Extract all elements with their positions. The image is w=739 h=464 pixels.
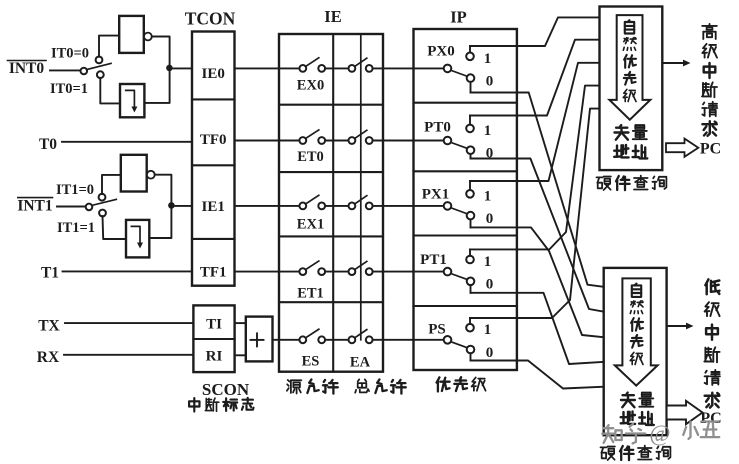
switch EX0 left contact <box>299 65 306 72</box>
switch ES arm <box>306 329 319 338</box>
label zhongduan biaozhi (interrupt flags) <box>189 398 253 412</box>
wire IT0=1 contact to edge detector <box>100 78 120 104</box>
svg-text:IT1=0: IT1=0 <box>56 182 94 198</box>
IP row divider 2 <box>414 170 517 172</box>
svg-text:PX1: PX1 <box>422 187 450 203</box>
label IT0=0 <box>51 46 89 62</box>
label SCON <box>202 380 250 399</box>
wire EA switch to IP row 3 <box>373 205 444 207</box>
switch ET1 arm <box>306 261 319 270</box>
label shiliang dizhi (vector address, high) <box>614 125 647 158</box>
switch ET1 right contact <box>318 268 325 275</box>
input label T1 <box>41 265 59 282</box>
falling edge symbol in U2 <box>126 90 138 112</box>
label IP <box>450 8 467 27</box>
wire U4 output to junction <box>149 209 171 239</box>
digit 1 label row 3 <box>484 188 492 204</box>
EA switch row 3 right contact <box>366 203 373 210</box>
wire PS contact-1 stub <box>469 318 471 324</box>
switch PT1 pole <box>444 268 452 276</box>
switch PS contact 1 <box>466 324 474 332</box>
wire PX0-1 to high encoder in1 <box>470 17 600 46</box>
label IE <box>324 7 341 26</box>
EA switch row 2 left contact <box>349 137 356 144</box>
IE row divider 3 <box>279 235 383 237</box>
plus sign in OR gate <box>251 333 264 346</box>
input label TX <box>38 318 60 335</box>
svg-text:EX1: EX1 <box>297 217 324 233</box>
input label RX <box>37 349 60 366</box>
svg-text:0: 0 <box>486 277 494 293</box>
digit 0 label row 2 <box>486 146 494 162</box>
IP row divider 1 <box>414 102 517 104</box>
flag bit RI <box>206 349 223 365</box>
wire PX1 contact-1 stub <box>469 181 471 190</box>
label ziran youxianji (natural priority, low) <box>630 284 643 365</box>
svg-text:TX: TX <box>38 318 60 335</box>
register SCON box <box>193 305 234 372</box>
wire TI to OR gate <box>235 322 246 324</box>
EA common control line <box>360 34 362 340</box>
switch PT0 contact 0 <box>467 146 475 154</box>
switch PT0 arm (set to 0) <box>451 142 467 148</box>
flag bit IE0 <box>202 66 225 82</box>
switch ET0 left contact <box>299 137 306 144</box>
EA switch row 5 left contact <box>349 336 356 343</box>
switch PT1 contact 1 <box>466 256 474 264</box>
wire EX0 to EA switch <box>325 67 348 69</box>
SCON divider TI/RI <box>193 338 234 340</box>
wire PT0-1 to high encoder in2 <box>470 40 600 116</box>
svg-text:@: @ <box>649 421 670 446</box>
EA switch row 1 arm <box>355 58 367 66</box>
switch PS pole <box>444 336 452 344</box>
IE row divider 4 <box>279 301 383 303</box>
label yingjian chaxun (hardware polling, high) <box>597 176 667 191</box>
label shiliang dizhi (vector address, low) <box>621 393 654 425</box>
switch IT1 contact IT1=0 <box>99 194 106 201</box>
label EX0 <box>297 78 324 94</box>
switch PX1 arm (set to 0) <box>451 208 467 214</box>
wire junction to TCON IE0 <box>170 67 192 69</box>
switch PX0 arm (set to 0) <box>451 70 467 76</box>
svg-text:1: 1 <box>484 322 492 338</box>
switch IT0 contact IT0=1 <box>97 71 104 78</box>
svg-text:1: 1 <box>484 188 492 204</box>
EA switch row 4 left contact <box>349 268 356 275</box>
svg-text:IP: IP <box>450 8 467 27</box>
switch EX0 right contact <box>318 65 325 72</box>
TCON divider IE0/TF0 <box>192 98 235 100</box>
label ES <box>302 354 320 370</box>
register IE box <box>279 34 383 372</box>
svg-text:1: 1 <box>484 51 492 67</box>
wire IT1=0 contact to level detector <box>102 175 121 194</box>
input label T0 <box>39 136 57 153</box>
switch ET0 arm <box>306 130 319 139</box>
natural priority arrow (high) <box>609 15 650 120</box>
EA switch row 5 arm <box>355 330 367 338</box>
wire PT1 contact-0 stub <box>470 285 472 293</box>
junction node (INT0 paths merge) <box>166 65 173 72</box>
svg-text:EX0: EX0 <box>297 78 324 94</box>
low priority encoder box <box>604 268 667 435</box>
svg-text:PX0: PX0 <box>427 44 455 60</box>
switch EX1 arm <box>306 195 319 204</box>
svg-text:PT0: PT0 <box>424 120 451 136</box>
wire PX0 contact-0 stub <box>470 82 472 93</box>
svg-text:EA: EA <box>350 355 371 371</box>
switch PX1 contact 0 <box>467 212 475 220</box>
svg-text:PT1: PT1 <box>420 252 447 268</box>
wire PT1-1 to high encoder in4 <box>470 86 600 250</box>
digit 0 label row 3 <box>486 211 494 227</box>
level detector box U3 (INT1) <box>121 155 147 192</box>
svg-text:0: 0 <box>486 73 494 89</box>
label IT0=1 <box>50 81 88 97</box>
wire PT0 contact-0 stub <box>470 154 472 159</box>
wire IT1=1 contact to edge detector <box>103 216 127 239</box>
inverter bubble on U1 output <box>144 33 152 41</box>
IP row divider 3 <box>414 234 517 236</box>
level detector box U1 (INT0) <box>119 16 144 53</box>
digit 0 label row 4 <box>486 277 494 293</box>
wire U1 output to junction <box>152 37 170 66</box>
switch EX1 left contact <box>299 203 306 210</box>
svg-text:ES: ES <box>302 354 320 370</box>
digit 1 label row 4 <box>484 254 492 270</box>
wire EX1 to EA switch <box>325 205 348 207</box>
wire TCON to ET0 switch <box>235 140 300 142</box>
switch PS arm (set to 0) <box>451 342 467 348</box>
svg-text:TI: TI <box>206 317 222 333</box>
low interrupt request output line <box>667 323 694 330</box>
wire RX to SCON RI <box>64 354 193 356</box>
wire ET1 to EA switch <box>325 271 348 273</box>
hollow arrow to PC (high) <box>666 139 698 157</box>
svg-text:ET0: ET0 <box>297 149 324 165</box>
switch PX1 contact 1 <box>466 190 474 198</box>
svg-text:IE1: IE1 <box>202 199 225 215</box>
digit 0 label row 5 <box>486 345 494 361</box>
svg-text:IT1=1: IT1=1 <box>57 220 95 236</box>
inverter bubble on U3 output <box>147 171 155 179</box>
wire INT1 to selector pole <box>57 206 86 208</box>
switch IT0 arm <box>87 63 111 69</box>
label PC (high) <box>700 141 721 158</box>
label EX1 <box>297 217 324 233</box>
digit 1 label row 2 <box>484 123 492 139</box>
EA switch row 3 arm <box>355 196 367 204</box>
EA switch row 3 left contact <box>349 203 356 210</box>
switch PX0 pole <box>444 65 452 73</box>
svg-text:PC: PC <box>700 410 721 427</box>
label ziran youxianji (natural priority, high) <box>623 20 636 101</box>
svg-text:TF0: TF0 <box>200 132 227 148</box>
svg-text:IT0=1: IT0=1 <box>50 81 88 97</box>
switch ET1 left contact <box>299 268 306 275</box>
wire T0 to TCON TF0 <box>62 141 192 143</box>
register TCON box <box>192 32 235 286</box>
switch EX1 right contact <box>318 203 325 210</box>
IP row divider 4 <box>414 305 517 307</box>
switch IT1 selector pole <box>86 204 93 211</box>
input label INT1 (active low) <box>17 198 52 215</box>
switch ES right contact <box>318 336 325 343</box>
svg-text:0: 0 <box>486 211 494 227</box>
switch PX1 pole <box>444 202 452 210</box>
label diji zhongduan qingqiu (low level interrupt request) <box>704 279 720 407</box>
svg-text:1: 1 <box>484 254 492 270</box>
IE row divider 1 <box>279 104 383 106</box>
switch EX0 arm <box>306 58 319 67</box>
priority bit label PT1 <box>420 252 447 268</box>
label ET0 <box>297 149 324 165</box>
svg-text:1: 1 <box>484 123 492 139</box>
wire TCON to EX1 switch <box>235 205 300 207</box>
switch PT0 contact 1 <box>466 125 474 133</box>
falling edge symbol in U4 <box>131 226 143 248</box>
switch PT0 pole <box>444 137 452 145</box>
wire PX0 contact-1 stub <box>469 46 471 53</box>
svg-text:0: 0 <box>486 345 494 361</box>
wire PX1-1 to high encoder in3 <box>470 63 600 181</box>
switch PX0 contact 0 <box>467 74 475 82</box>
label zong yunxu (global enable) <box>355 379 406 393</box>
wire INT0 to selector pole <box>50 69 81 71</box>
wire U2 output to junction <box>144 70 169 103</box>
wire PS-0 to low encoder in5 <box>471 361 604 389</box>
label gaoji zhongduan qingqiu (high level interrupt request) <box>702 24 717 136</box>
svg-text:IE0: IE0 <box>202 66 225 82</box>
IE column divider <box>332 34 334 372</box>
switch PX0 contact 1 <box>466 53 474 61</box>
wire PS contact-0 stub <box>470 353 472 360</box>
svg-text:RX: RX <box>37 349 60 366</box>
svg-text:IE: IE <box>324 7 341 26</box>
svg-text:SCON: SCON <box>202 380 250 399</box>
wire PX1 contact-0 stub <box>470 219 472 227</box>
svg-text:INT1: INT1 <box>17 198 52 215</box>
label yuan yunxu (source enable) <box>287 380 338 394</box>
wire PS-1 to high encoder in5 <box>470 109 600 318</box>
wire ES to EA switch <box>325 339 348 341</box>
digit 1 label row 1 <box>484 51 492 67</box>
OR gate box (+) <box>246 317 273 362</box>
svg-text:IT0=0: IT0=0 <box>51 46 89 62</box>
svg-text:PC: PC <box>700 141 721 158</box>
wire PX1-0 to low encoder in3 <box>471 227 604 337</box>
input label INT0 (active low) <box>8 60 47 77</box>
priority bit label PT0 <box>424 120 451 136</box>
watermark zhihu @xiaowu <box>602 421 719 446</box>
wire EA switch to IP row 2 <box>373 140 444 142</box>
switch PS contact 0 <box>467 346 475 354</box>
register IP box <box>414 29 517 370</box>
digit 0 label row 1 <box>486 73 494 89</box>
svg-text:T1: T1 <box>41 265 59 282</box>
EA switch row 4 right contact <box>366 268 373 275</box>
wire ET0 to EA switch <box>325 140 348 142</box>
wire PT1-0 to low encoder in4 <box>471 293 604 364</box>
wire RI to OR gate <box>235 354 246 356</box>
switch IT1 arm <box>92 199 117 205</box>
switch PT1 arm (set to 0) <box>451 274 467 280</box>
label IT1=0 <box>56 182 94 198</box>
IE row divider 2 <box>279 171 383 173</box>
high interrupt request output line <box>662 60 690 67</box>
TCON divider IE1/TF1 <box>192 238 235 240</box>
label youxianji (priority) <box>437 377 486 391</box>
svg-text:TF1: TF1 <box>200 265 227 281</box>
svg-text:TCON: TCON <box>185 9 236 29</box>
label IT1=1 <box>57 220 95 236</box>
wire TX to SCON TI <box>65 322 193 324</box>
wire IT0=0 contact to level detector <box>99 36 119 57</box>
wire U3 output to junction <box>155 175 172 203</box>
TCON divider TF0/IE1 <box>192 164 235 166</box>
label yingjian chaxun (hardware polling, low) <box>601 446 671 461</box>
EA switch row 5 right contact <box>366 336 373 343</box>
edge detector box U2 (INT0) <box>120 84 144 117</box>
wire EA switch to IP row 4 <box>373 271 444 273</box>
EA switch row 2 right contact <box>366 137 373 144</box>
EA switch row 4 arm <box>355 261 367 269</box>
svg-text:ET1: ET1 <box>297 286 324 302</box>
priority bit label PS <box>428 322 446 338</box>
flag bit TF0 <box>200 132 227 148</box>
wire EA switch to IP row 1 <box>373 67 444 69</box>
wire PX0-0 to low encoder in1 <box>471 93 604 287</box>
natural priority arrow (low) <box>615 278 658 385</box>
label TCON <box>185 9 236 29</box>
wire PT0-0 to low encoder in2 <box>471 159 604 312</box>
wire PT1 contact-1 stub <box>469 249 471 255</box>
priority bit label PX0 <box>427 44 455 60</box>
svg-text:T0: T0 <box>39 136 57 153</box>
junction node (INT1 paths merge) <box>168 202 175 209</box>
wire TCON to ET1 switch <box>235 271 300 273</box>
label EA <box>350 355 371 371</box>
priority bit label PX1 <box>422 187 450 203</box>
EA switch row 1 left contact <box>349 65 356 72</box>
high priority encoder box <box>600 7 663 171</box>
wire OR gate to ES switch <box>273 339 300 341</box>
wire junction to TCON IE1 <box>171 205 192 207</box>
switch ES left contact <box>299 336 306 343</box>
switch IT0 contact IT0=0 <box>96 57 103 64</box>
wire TCON to EX0 switch <box>235 67 300 69</box>
wire T1 to TCON TF1 <box>63 270 193 272</box>
hollow arrow to PC (low) <box>667 401 703 424</box>
svg-text:INT0: INT0 <box>9 60 45 77</box>
svg-text:PS: PS <box>428 322 446 338</box>
label PC (low) <box>700 410 721 427</box>
label ET1 <box>297 286 324 302</box>
svg-text:RI: RI <box>206 349 223 365</box>
flag bit TF1 <box>200 265 227 281</box>
wire EA switch to IP row 5 <box>373 339 444 341</box>
EA switch row 2 arm <box>355 130 367 138</box>
switch IT1 contact IT1=1 <box>99 210 106 217</box>
wire PT0 contact-1 stub <box>469 116 471 125</box>
switch PT1 contact 0 <box>467 278 475 286</box>
flag bit TI <box>206 317 222 333</box>
switch ET0 right contact <box>318 137 325 144</box>
digit 1 label row 5 <box>484 322 492 338</box>
flag bit IE1 <box>202 199 225 215</box>
switch IT0 selector pole <box>81 68 88 75</box>
EA switch row 1 right contact <box>366 65 373 72</box>
edge detector box U4 (INT1) <box>126 220 149 258</box>
